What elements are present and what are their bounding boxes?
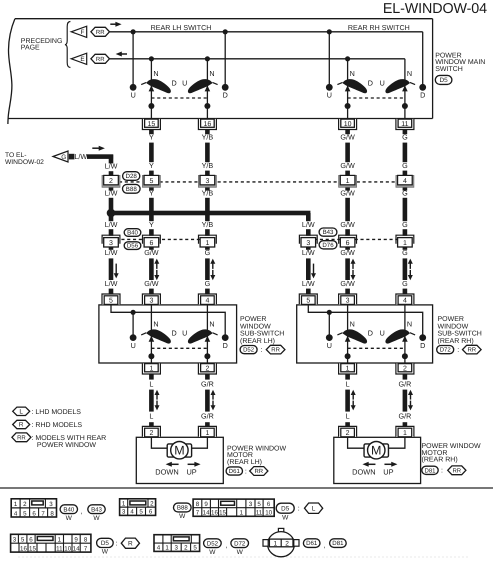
svg-text:3: 3 <box>122 509 126 516</box>
svg-text:L/W: L/W <box>302 279 315 288</box>
svg-text:W: W <box>209 549 216 556</box>
svg-text:9: 9 <box>74 537 78 544</box>
svg-text:D: D <box>171 78 176 87</box>
svg-text:7: 7 <box>196 510 200 517</box>
svg-text:2: 2 <box>403 365 407 372</box>
svg-text:POWER: POWER <box>240 316 266 323</box>
svg-text:N: N <box>209 320 214 329</box>
svg-text:G/W: G/W <box>340 279 355 288</box>
svg-text:3: 3 <box>149 298 153 305</box>
svg-text::: : <box>261 347 263 354</box>
svg-text:B43: B43 <box>323 229 334 236</box>
svg-text:3: 3 <box>109 240 113 247</box>
svg-text:6: 6 <box>149 509 153 516</box>
svg-text::: : <box>245 468 247 475</box>
svg-text:5: 5 <box>109 298 113 305</box>
svg-text:L: L <box>19 408 23 415</box>
svg-text:REAR RH SWITCH: REAR RH SWITCH <box>348 24 410 32</box>
svg-text:N: N <box>350 69 355 78</box>
svg-text:G: G <box>205 279 211 288</box>
svg-text:Y/B: Y/B <box>202 133 214 142</box>
svg-text:N: N <box>407 69 412 78</box>
svg-text:N: N <box>153 320 158 329</box>
svg-text:Y: Y <box>149 133 154 142</box>
svg-text:,: , <box>81 509 83 516</box>
svg-text:G/W: G/W <box>340 189 355 198</box>
svg-text:N: N <box>153 69 158 78</box>
svg-text:11: 11 <box>401 121 408 128</box>
svg-text:1: 1 <box>403 430 407 437</box>
svg-text:B88: B88 <box>177 505 188 512</box>
svg-text:D5: D5 <box>101 540 110 547</box>
svg-text:RR: RR <box>271 347 280 354</box>
svg-text:N: N <box>209 69 214 78</box>
svg-text:G/R: G/R <box>399 379 412 388</box>
svg-text:L: L <box>149 412 153 421</box>
svg-text:L/W: L/W <box>105 162 118 171</box>
svg-text:5: 5 <box>139 509 143 516</box>
svg-text:WINDOW: WINDOW <box>438 323 469 330</box>
svg-text:G/W: G/W <box>340 133 355 142</box>
svg-text:D: D <box>223 341 228 350</box>
svg-text:Y/B: Y/B <box>202 161 214 170</box>
svg-text:B88: B88 <box>126 186 138 193</box>
svg-text:U: U <box>131 91 136 100</box>
svg-text:7: 7 <box>41 510 45 517</box>
svg-text:U: U <box>327 341 332 350</box>
svg-text:W: W <box>282 514 289 521</box>
svg-text:L/W: L/W <box>302 220 315 229</box>
svg-text:W: W <box>237 549 244 556</box>
svg-text:Y/B: Y/B <box>202 220 214 229</box>
svg-text:U: U <box>380 329 385 338</box>
svg-text:G/R: G/R <box>201 379 214 388</box>
svg-text:RR: RR <box>467 347 476 354</box>
svg-text:14: 14 <box>73 545 80 552</box>
svg-text:3: 3 <box>174 545 178 552</box>
svg-text:D61: D61 <box>306 540 318 547</box>
svg-text:D56: D56 <box>127 243 139 250</box>
svg-text:DOWN: DOWN <box>352 467 375 476</box>
svg-text:1: 1 <box>205 430 209 437</box>
svg-text:L/W: L/W <box>105 248 118 257</box>
svg-text:2: 2 <box>285 541 289 548</box>
svg-text:G/W: G/W <box>340 248 355 257</box>
svg-text:RR: RR <box>96 56 105 63</box>
svg-text:1: 1 <box>149 365 153 372</box>
svg-text:G/W: G/W <box>144 279 159 288</box>
svg-text:W: W <box>179 513 186 520</box>
svg-text:D81: D81 <box>332 540 344 547</box>
svg-text:,: , <box>225 543 227 550</box>
svg-text:D72: D72 <box>440 347 452 354</box>
svg-text:8: 8 <box>50 510 54 517</box>
svg-text:DOWN: DOWN <box>155 467 178 476</box>
svg-text:1: 1 <box>273 541 277 548</box>
svg-text:R: R <box>19 422 24 429</box>
svg-text:L: L <box>346 412 350 421</box>
svg-text:D: D <box>420 341 425 350</box>
svg-text:D52: D52 <box>243 347 255 354</box>
svg-text:3: 3 <box>346 298 350 305</box>
svg-text:1: 1 <box>403 240 407 247</box>
svg-text:G/W: G/W <box>340 220 355 229</box>
svg-text:15: 15 <box>219 510 226 517</box>
svg-text:5: 5 <box>149 178 153 185</box>
svg-text:16: 16 <box>204 121 212 128</box>
svg-text:8: 8 <box>84 537 88 544</box>
svg-text:1: 1 <box>14 501 18 508</box>
svg-text:11: 11 <box>256 510 263 517</box>
svg-text:G/W: G/W <box>340 161 355 170</box>
svg-text:,: , <box>324 542 326 549</box>
svg-text:Y: Y <box>149 161 154 170</box>
svg-text:Y: Y <box>149 189 154 198</box>
svg-text:11: 11 <box>56 545 63 552</box>
svg-text:POWER: POWER <box>438 316 464 323</box>
svg-text::: : <box>441 468 443 475</box>
svg-text:RR: RR <box>254 468 263 475</box>
svg-text:L/W: L/W <box>302 248 315 257</box>
svg-text:W: W <box>93 515 100 522</box>
svg-text:Y: Y <box>149 220 154 229</box>
svg-text:(REAR LH): (REAR LH) <box>227 458 262 466</box>
svg-text:RR: RR <box>96 29 105 36</box>
svg-text:2: 2 <box>23 501 27 508</box>
svg-text:1: 1 <box>165 545 169 552</box>
svg-text:4: 4 <box>157 545 161 552</box>
svg-text:G: G <box>402 161 408 170</box>
svg-text:(REAR LH): (REAR LH) <box>240 337 275 345</box>
svg-text:: MODELS WITH REAR: : MODELS WITH REAR <box>32 435 107 442</box>
svg-text:RR: RR <box>17 434 26 441</box>
svg-text:B40: B40 <box>127 230 138 237</box>
svg-text:L: L <box>149 379 153 388</box>
svg-text:2: 2 <box>205 365 209 372</box>
svg-text:EL-WINDOW-04: EL-WINDOW-04 <box>383 1 487 17</box>
svg-text:G: G <box>402 133 408 142</box>
svg-text:15: 15 <box>148 121 156 128</box>
svg-text:U: U <box>182 329 187 338</box>
svg-text:5: 5 <box>193 545 197 552</box>
svg-text:5: 5 <box>306 298 310 305</box>
svg-text:D: D <box>368 78 373 87</box>
svg-text:G/W: G/W <box>144 248 159 257</box>
svg-text::: : <box>298 506 300 513</box>
svg-text:N: N <box>407 320 412 329</box>
svg-text:POWER WINDOW: POWER WINDOW <box>37 442 96 449</box>
svg-text:(REAR RH): (REAR RH) <box>422 456 458 464</box>
svg-text:1: 1 <box>346 365 350 372</box>
svg-text:7: 7 <box>84 545 88 552</box>
svg-text:RR: RR <box>452 467 461 474</box>
svg-text:8: 8 <box>196 501 200 508</box>
svg-text:5: 5 <box>257 501 261 508</box>
svg-text:D: D <box>171 329 176 338</box>
svg-text:L/W: L/W <box>105 189 118 198</box>
svg-text:: RHD MODELS: : RHD MODELS <box>32 422 83 429</box>
svg-text:D5: D5 <box>440 77 449 84</box>
svg-text:6: 6 <box>149 240 153 247</box>
svg-text:G: G <box>205 248 211 257</box>
svg-text:G: G <box>402 220 408 229</box>
svg-text:SUB-SWITCH: SUB-SWITCH <box>438 331 482 338</box>
svg-text:D52: D52 <box>207 540 219 547</box>
svg-text:L/W: L/W <box>105 220 118 229</box>
svg-text:R: R <box>128 540 133 547</box>
svg-text:WINDOW: WINDOW <box>240 323 271 330</box>
svg-text::: : <box>116 540 118 547</box>
svg-text:L: L <box>312 505 316 512</box>
svg-text:2: 2 <box>150 500 154 507</box>
svg-text:U: U <box>327 91 332 100</box>
svg-text:UP: UP <box>383 467 393 476</box>
svg-text:5: 5 <box>21 537 25 544</box>
svg-text:F: F <box>81 29 85 36</box>
svg-text:6: 6 <box>267 501 271 508</box>
svg-text:M: M <box>174 444 184 458</box>
svg-text:D: D <box>223 91 228 100</box>
svg-text:M: M <box>371 444 381 458</box>
svg-text:G/R: G/R <box>201 412 214 421</box>
svg-text:2: 2 <box>184 545 188 552</box>
svg-text:L/W: L/W <box>74 152 87 161</box>
svg-text:3: 3 <box>49 501 53 508</box>
svg-text::: : <box>457 347 459 354</box>
svg-text:UP: UP <box>186 467 196 476</box>
svg-text:D72: D72 <box>234 540 246 547</box>
svg-text:5: 5 <box>23 510 27 517</box>
svg-text:D: D <box>420 91 425 100</box>
svg-text:L: L <box>346 379 350 388</box>
svg-text:10: 10 <box>64 545 71 552</box>
svg-text:4: 4 <box>205 298 209 305</box>
svg-text:N: N <box>350 320 355 329</box>
svg-text:10: 10 <box>344 121 352 128</box>
svg-text:W: W <box>66 515 73 522</box>
svg-text:1: 1 <box>346 178 350 185</box>
svg-text:6: 6 <box>346 240 350 247</box>
svg-text:G: G <box>402 248 408 257</box>
svg-text:1: 1 <box>205 240 209 247</box>
svg-text:PAGE: PAGE <box>21 45 40 52</box>
svg-text:G/R: G/R <box>399 412 412 421</box>
svg-text:SWITCH: SWITCH <box>435 66 463 73</box>
svg-text:14: 14 <box>203 510 210 517</box>
svg-text:6: 6 <box>32 510 36 517</box>
svg-text:Y/B: Y/B <box>202 189 214 198</box>
svg-text:D61: D61 <box>229 468 241 475</box>
svg-text:B43: B43 <box>91 506 102 513</box>
svg-text:REAR LH SWITCH: REAR LH SWITCH <box>151 24 212 32</box>
svg-text:1: 1 <box>58 537 62 544</box>
svg-text:WINDOW-02: WINDOW-02 <box>5 159 44 166</box>
svg-text:W: W <box>102 549 109 556</box>
svg-text:4: 4 <box>403 298 407 305</box>
svg-text:U: U <box>380 78 385 87</box>
svg-text:4: 4 <box>403 178 407 185</box>
svg-text:D76: D76 <box>322 242 334 249</box>
svg-text:U: U <box>131 341 136 350</box>
svg-text:2: 2 <box>149 430 153 437</box>
svg-text:3: 3 <box>249 501 253 508</box>
svg-text:3: 3 <box>205 178 209 185</box>
svg-text:2: 2 <box>109 178 113 185</box>
svg-text:1: 1 <box>240 510 244 517</box>
svg-text:G: G <box>402 279 408 288</box>
svg-text:16: 16 <box>211 510 218 517</box>
svg-text:D81: D81 <box>424 467 436 474</box>
svg-text:U: U <box>182 78 187 87</box>
svg-text:3: 3 <box>306 240 310 247</box>
svg-text:4: 4 <box>130 509 134 516</box>
svg-text:D28: D28 <box>126 173 138 180</box>
svg-text:15: 15 <box>29 545 36 552</box>
svg-text:B40: B40 <box>63 506 74 513</box>
svg-text:SUB-SWITCH: SUB-SWITCH <box>240 331 284 338</box>
svg-text:: LHD MODELS: : LHD MODELS <box>32 409 82 416</box>
svg-text:G: G <box>61 154 66 161</box>
svg-text:(REAR RH): (REAR RH) <box>438 337 474 345</box>
svg-text:4: 4 <box>14 510 18 517</box>
svg-text:E: E <box>80 56 84 63</box>
svg-text:L/W: L/W <box>105 279 118 288</box>
svg-text:16: 16 <box>20 545 27 552</box>
svg-text:D: D <box>368 329 373 338</box>
svg-text:10: 10 <box>265 510 272 517</box>
svg-text:1: 1 <box>122 500 126 507</box>
svg-text:D5: D5 <box>281 505 290 512</box>
svg-text:3: 3 <box>13 537 17 544</box>
svg-text:9: 9 <box>204 501 208 508</box>
svg-text:2: 2 <box>346 430 350 437</box>
svg-text:6: 6 <box>29 537 33 544</box>
svg-text:G: G <box>402 189 408 198</box>
